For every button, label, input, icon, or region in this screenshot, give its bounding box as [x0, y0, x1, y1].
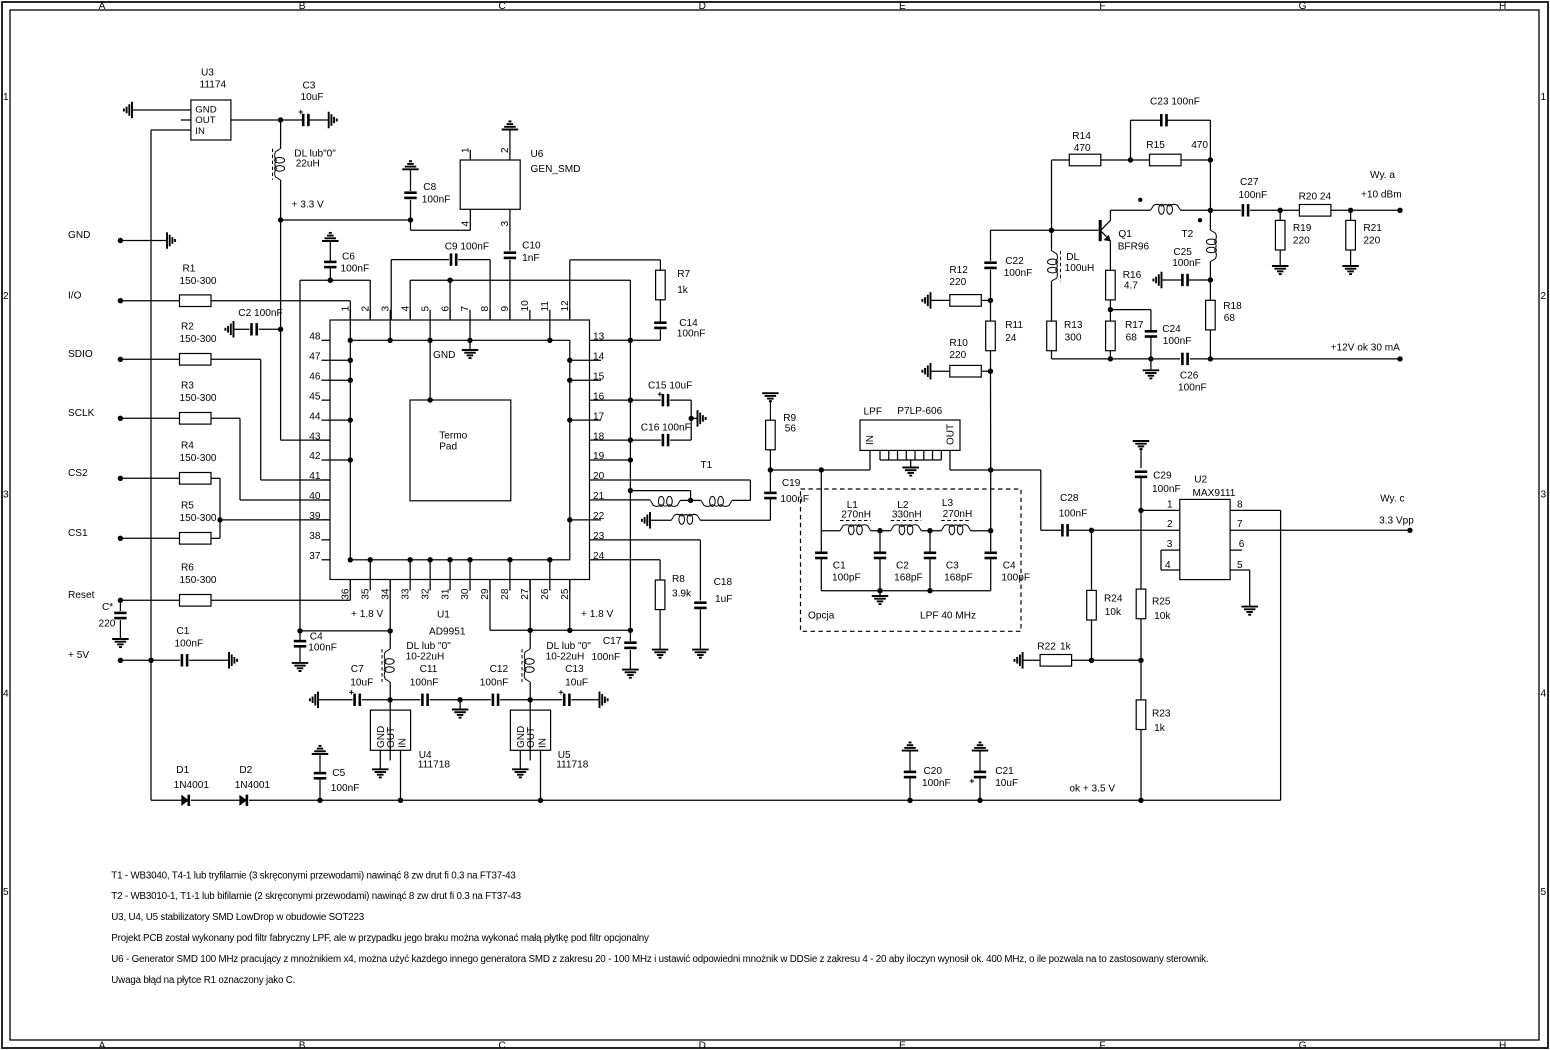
U6 pin 1 stub: [469, 150, 471, 160]
svg-text:F: F: [1099, 1040, 1105, 1050]
svg-text:R10: R10: [949, 338, 968, 349]
svg-text:10: 10: [520, 300, 531, 312]
svg-text:36: 36: [341, 588, 352, 600]
svg-text:C22: C22: [1005, 256, 1024, 267]
svg-text:T2: T2: [1182, 229, 1194, 240]
svg-text:100nF: 100nF: [922, 778, 951, 789]
ground at filter: [872, 595, 889, 597]
resistor R11 24: [986, 321, 996, 351]
U1 pin 29 stub: [489, 580, 491, 591]
svg-text:R11: R11: [1005, 320, 1023, 331]
resistor R10 220: [930, 363, 932, 380]
optional filter dashed box: [801, 489, 1022, 631]
svg-text:C9 100nF: C9 100nF: [445, 242, 489, 253]
inductor DL 22uH vertical: [280, 120, 282, 149]
svg-text:IN: IN: [865, 435, 876, 445]
svg-text:U6: U6: [531, 149, 544, 160]
terminal dot SDIO: [118, 357, 123, 362]
pin 1 riser into ring: [349, 301, 351, 341]
resistor R1 150-300: [120, 300, 179, 302]
resistor R18 68: [1209, 280, 1211, 300]
svg-text:6: 6: [1239, 539, 1245, 550]
svg-text:1k: 1k: [1060, 642, 1072, 653]
inductor DL 100uH: [1051, 230, 1053, 250]
svg-text:Projekt PCB został wykonany po: Projekt PCB został wykonany pod filtr fa…: [111, 933, 649, 944]
svg-text:C28: C28: [1060, 493, 1079, 504]
LPF P7LP-606 body: [860, 420, 960, 450]
junction C4 rail: [297, 628, 302, 633]
svg-text:100uH: 100uH: [1065, 263, 1095, 274]
junction C15/C16 ground: [689, 416, 694, 421]
capacitor C16 100nF: [601, 439, 661, 441]
junction C24 bottom rail: [1148, 356, 1153, 361]
svg-text:A: A: [99, 1040, 106, 1050]
left vertical rail x=300: [299, 280, 301, 631]
svg-text:1: 1: [1541, 92, 1547, 103]
svg-text:IN: IN: [398, 738, 409, 748]
U6 pin 3 wire to C10: [509, 209, 511, 251]
svg-text:10k: 10k: [1154, 611, 1171, 622]
Q1 collector wire to T2: [1110, 209, 1150, 211]
IC U1 AD9951 outline: [330, 320, 590, 580]
svg-text:Pad: Pad: [439, 442, 457, 453]
T2 phasing dot left: [1138, 198, 1142, 202]
svg-text:1: 1: [461, 147, 472, 153]
U1 pin 3 stub: [389, 310, 391, 320]
svg-text:DL: DL: [1066, 252, 1079, 263]
junction C29/U2 pin1/R25: [1138, 508, 1143, 513]
svg-text:IN: IN: [538, 738, 549, 748]
svg-text:C11: C11: [420, 664, 438, 675]
U5 OUT pin line: [529, 700, 531, 761]
terminal dot GND: [118, 238, 123, 243]
svg-text:100nF: 100nF: [677, 329, 706, 340]
svg-text:R24: R24: [1104, 594, 1123, 605]
capacitor C21 10uF: [972, 750, 989, 752]
capacitor C8 100nF: [402, 168, 419, 170]
svg-text:10uF: 10uF: [301, 92, 324, 103]
svg-text:5: 5: [1237, 560, 1243, 571]
U6 pin 2 wire to ground: [509, 130, 511, 161]
svg-text:3: 3: [1541, 490, 1547, 501]
capacitor C4 100pF (filter): [990, 531, 992, 552]
svg-text:4.7: 4.7: [1124, 281, 1138, 292]
ground at C17: [622, 669, 639, 671]
svg-text:168pF: 168pF: [894, 573, 923, 584]
svg-text:+ 1.8 V: + 1.8 V: [581, 609, 614, 620]
svg-text:10k: 10k: [1105, 607, 1122, 618]
svg-text:R25: R25: [1152, 597, 1171, 608]
svg-text:10-22uH: 10-22uH: [406, 652, 445, 663]
svg-text:R3: R3: [181, 381, 194, 392]
IC U2 MAX9111 body: [1180, 499, 1230, 579]
svg-text:U3: U3: [201, 68, 214, 79]
U1 pin 37 stub: [322, 559, 331, 561]
junction base/R14/DL: [1049, 228, 1054, 233]
svg-text:ok + 3.5 V: ok + 3.5 V: [1069, 784, 1115, 795]
svg-text:R9: R9: [783, 413, 796, 424]
svg-text:270nH: 270nH: [841, 510, 871, 521]
U1 pin 36 stub: [349, 580, 351, 591]
svg-text:Termo: Termo: [439, 431, 467, 442]
capacitor C6 100nF: [328, 278, 333, 283]
U1 pin 46 stub: [322, 379, 331, 381]
svg-text:68: 68: [1126, 333, 1138, 344]
U1 pin 20 stub: [590, 479, 602, 481]
capacitor C2 100nF: [234, 328, 250, 330]
U5 IN pin to +5V bus: [540, 750, 542, 800]
U1 pin 2 stub: [369, 310, 371, 320]
svg-text:17: 17: [593, 411, 605, 422]
svg-text:R5: R5: [181, 501, 194, 512]
U4 IN pin to +5V bus: [400, 750, 402, 800]
GND terminal wire: [120, 240, 167, 242]
capacitor C22 100nF: [990, 270, 992, 301]
svg-text:R14: R14: [1072, 131, 1091, 142]
svg-text:330nH: 330nH: [892, 510, 922, 521]
resistor R5 150-300: [120, 537, 179, 539]
pin 33 inner connection: [409, 560, 411, 580]
svg-text:3.9k: 3.9k: [672, 589, 692, 600]
svg-text:GND: GND: [433, 350, 455, 361]
U3 OUT pin wire to node: [231, 119, 281, 121]
svg-text:P7LP-606: P7LP-606: [897, 406, 942, 417]
transformer T2 secondary: [1209, 210, 1211, 230]
wire R3 to chip pin 40: [211, 417, 240, 419]
pin 35 inner connection: [369, 560, 371, 580]
wire R4 down to shared node: [211, 477, 220, 479]
svg-text:OUT: OUT: [945, 424, 956, 445]
U1 pin 8 stub: [489, 310, 491, 320]
svg-text:100nF: 100nF: [1163, 336, 1192, 347]
svg-text:100nF: 100nF: [410, 678, 439, 689]
wire opcja node down to L1: [820, 470, 822, 531]
pin 15 inner connection: [570, 379, 590, 381]
wire DL to +3.3V node: [280, 180, 282, 220]
capacitor C12 100nF: [460, 699, 491, 701]
ground at C18: [692, 649, 709, 651]
transformer T2 primary: [1151, 204, 1181, 210]
svg-text:100nF: 100nF: [422, 195, 451, 206]
svg-text:26: 26: [540, 588, 551, 600]
svg-text:E: E: [899, 1040, 906, 1050]
svg-text:C29: C29: [1153, 471, 1172, 482]
capacitor C11 100nF: [390, 699, 420, 701]
junction R24/R22 node: [1089, 658, 1094, 663]
svg-text:32: 32: [420, 588, 431, 600]
U1 pin 43 stub: [322, 439, 331, 441]
junction R12/R11/C22: [988, 298, 993, 303]
junction +3.3V: [278, 217, 283, 222]
wire R6 to chip pin 36: [211, 599, 350, 601]
junction R18 bottom rail: [1208, 356, 1213, 361]
wire pin 13 to C14: [601, 339, 660, 341]
svg-text:C3: C3: [946, 561, 959, 572]
svg-text:C20: C20: [924, 766, 943, 777]
capacitor C20 100nF: [902, 750, 919, 752]
pin 46 inner connection: [330, 379, 350, 381]
svg-text:100nF: 100nF: [308, 643, 337, 654]
svg-text:B: B: [299, 1040, 306, 1050]
wire pin 20 to T1 primary: [601, 479, 750, 481]
pin 37 inner junction: [348, 557, 353, 562]
diode D1 1N4001: [181, 795, 189, 806]
T1 primary winding right: [691, 499, 701, 501]
junction R25/R23/R22 node: [1138, 658, 1143, 663]
+5V rail wire down to bottom bus: [150, 660, 152, 800]
svg-text:DL lub "0": DL lub "0": [406, 641, 451, 652]
U2 pin 6 stub: [1230, 549, 1242, 551]
wire pin 23 to C18: [601, 539, 700, 541]
U1 pin 38 stub: [322, 539, 331, 541]
junction R9/C19: [768, 467, 773, 472]
resistor R2 150-300: [120, 358, 179, 360]
svg-text:R22: R22: [1037, 642, 1056, 653]
U1 pin 48 stub: [322, 339, 331, 341]
ground at U3 GND pin: [131, 102, 133, 119]
U1 pin 1 stub: [349, 310, 351, 320]
svg-text:OUT: OUT: [195, 115, 215, 126]
pin 26 inner connection: [549, 560, 551, 580]
svg-text:11174: 11174: [200, 80, 227, 91]
ground above U6 pin 2: [502, 129, 519, 131]
U1 pin 45 stub: [322, 399, 331, 401]
svg-text:C3: C3: [303, 81, 316, 92]
U3 OUT left stub: [181, 119, 191, 121]
capacitor C13 10uF: [530, 699, 562, 701]
+3.3V bus above pins 4-12: [409, 280, 411, 320]
terminal dot + 5V: [118, 658, 123, 663]
ground at C2: [233, 321, 235, 338]
U4 OUT pin line: [389, 700, 391, 761]
transistor Q1 BFR96: [1099, 220, 1102, 241]
resistor R15 470: [1131, 159, 1150, 161]
svg-text:Opcja: Opcja: [808, 611, 835, 622]
junction U5 IN bus: [538, 798, 543, 803]
ground above R9: [762, 392, 779, 394]
svg-text:OUT: OUT: [526, 727, 537, 748]
svg-text:111718: 111718: [418, 760, 451, 771]
svg-text:C: C: [499, 1040, 506, 1050]
U1 pin 44 stub: [322, 419, 331, 421]
U1 pin 6 stub: [449, 310, 451, 320]
pin 3 riser to C9: [390, 260, 392, 320]
resistor R19 220: [1279, 210, 1281, 220]
svg-text:C13: C13: [565, 664, 584, 675]
pin 6 riser junction: [449, 280, 451, 320]
svg-text:47: 47: [309, 351, 321, 362]
junction L2/L3/C3: [927, 528, 932, 533]
svg-text:R16: R16: [1123, 270, 1142, 281]
svg-text:1N4001: 1N4001: [174, 780, 210, 791]
U1 pin 21 stub: [590, 499, 602, 501]
svg-text:300: 300: [1065, 333, 1082, 344]
wire LPF OUT down to L3/C4: [990, 470, 992, 531]
U1 pin 34 stub: [389, 580, 391, 591]
svg-text:30: 30: [460, 588, 471, 600]
resistor R8 3.9k: [655, 580, 665, 610]
wire LPF OUT node to C28: [991, 469, 1041, 471]
svg-text:2: 2: [3, 291, 9, 302]
svg-text:C2 100nF: C2 100nF: [238, 308, 282, 319]
LPF ground: [910, 460, 912, 468]
junction U3 out node: [278, 117, 283, 122]
wire R9 node to LPF IN: [770, 469, 870, 471]
svg-text:100nF: 100nF: [1059, 509, 1088, 520]
junction pin 34 rail: [388, 628, 393, 633]
svg-text:G: G: [1299, 1, 1307, 12]
U1 pin 5 stub: [429, 310, 431, 320]
svg-text:+10 dBm: +10 dBm: [1361, 190, 1402, 201]
svg-text:SDIO: SDIO: [68, 349, 93, 360]
svg-text:7: 7: [1237, 519, 1243, 530]
resistor R22 1k: [1022, 652, 1024, 669]
+1.8V right rail: [489, 580, 491, 631]
diode D2 1N4001: [239, 795, 247, 806]
svg-text:14: 14: [593, 351, 605, 362]
resistor R7 1k: [659, 260, 661, 270]
junction R23 bottom bus: [1138, 798, 1143, 803]
LPF pin comb: [879, 450, 881, 460]
svg-text:10uF: 10uF: [350, 678, 373, 689]
svg-text:100nF: 100nF: [480, 678, 509, 689]
capacitor C10 1nF: [504, 251, 516, 254]
pin 7 inner connection: [469, 320, 471, 340]
U1 pin 23 stub: [590, 539, 602, 541]
svg-text:R6: R6: [181, 563, 194, 574]
svg-text:I/O: I/O: [68, 290, 82, 301]
svg-text:H: H: [1499, 1040, 1506, 1050]
pin 44 inner connection: [330, 419, 350, 421]
inductor L3 270nH: [941, 525, 970, 531]
U1 pin 35 stub: [369, 580, 371, 591]
U1 pin 33 stub: [409, 580, 411, 591]
svg-text:150-300: 150-300: [180, 453, 217, 464]
svg-text:+ 1.8 V: + 1.8 V: [351, 609, 384, 620]
ground at amplifier rail: [1150, 359, 1152, 370]
U1 pin 15 stub: [590, 379, 602, 381]
capacitor C4 100nF: [299, 631, 301, 641]
amplifier bottom rail left of C26: [1052, 358, 1181, 360]
+12V terminal dot: [1397, 356, 1402, 361]
capacitor C25 100nF: [1161, 272, 1163, 289]
U1 pin 9 stub: [509, 310, 511, 320]
svg-text:4: 4: [1541, 688, 1547, 699]
svg-text:43: 43: [309, 431, 321, 442]
pin 3 inner connection: [389, 320, 391, 340]
junction R16/R17/C24: [1108, 307, 1113, 312]
ground right of C13: [599, 692, 601, 709]
svg-text:R20 24: R20 24: [1299, 192, 1332, 203]
svg-text:+ 3.3 V: + 3.3 V: [292, 200, 325, 211]
svg-text:D1: D1: [176, 765, 189, 776]
capacitor C* 220 at Reset: [119, 600, 121, 611]
pin 30 inner connection: [469, 560, 471, 580]
svg-text:3: 3: [380, 306, 391, 312]
terminal dot CS2: [118, 476, 123, 481]
resistor R14 470: [1051, 160, 1053, 230]
svg-text:46: 46: [309, 371, 321, 382]
svg-text:C24: C24: [1162, 324, 1181, 335]
junction LPF OUT node: [988, 467, 993, 472]
U1 pin 28 stub: [509, 580, 511, 591]
U1 pin 10 stub: [529, 310, 531, 320]
svg-text:22: 22: [593, 511, 605, 522]
regulator U4 111718 body: [370, 710, 410, 750]
svg-text:100pF: 100pF: [832, 573, 861, 584]
wire R2 to chip pin 41: [211, 358, 261, 360]
svg-text:IN: IN: [195, 126, 205, 137]
svg-text:15: 15: [593, 371, 605, 382]
svg-text:100nF: 100nF: [592, 652, 621, 663]
U4 GND pin to ground: [379, 750, 381, 769]
svg-text:270nH: 270nH: [943, 509, 973, 520]
pin 34 wire to DL coil: [389, 580, 391, 631]
terminal dot CS1: [118, 536, 123, 541]
resistor R12 220: [930, 292, 932, 309]
U1 pin 12 stub: [569, 310, 571, 320]
pin 5 wire to thermal pad: [429, 340, 431, 400]
svg-text:C5: C5: [332, 768, 345, 779]
junction T1 tap bus: [628, 488, 633, 493]
svg-text:BFR96: BFR96: [1118, 242, 1150, 253]
junction +5V rail: [148, 658, 153, 663]
svg-text:220: 220: [949, 277, 966, 288]
capacitor C28 100nF: [1041, 529, 1063, 531]
junction +1.8V right rail at C17: [628, 628, 633, 633]
svg-text:8: 8: [1237, 499, 1243, 510]
svg-text:R4: R4: [181, 441, 194, 452]
Q1 base wire: [991, 229, 1099, 231]
svg-text:39: 39: [309, 511, 321, 522]
ground at R21: [1342, 265, 1359, 267]
junction L1/L2/C2: [877, 528, 882, 533]
svg-text:U2: U2: [1194, 475, 1207, 486]
svg-text:+ 5V: + 5V: [68, 650, 89, 661]
bus corner down to pin 13 node: [629, 280, 631, 340]
svg-text:150-300: 150-300: [180, 334, 217, 345]
svg-text:C16 100nF: C16 100nF: [641, 423, 691, 434]
U1 inner ground ring: [350, 340, 570, 560]
junction DL/C7/C11 node: [388, 697, 393, 702]
svg-text:Q1: Q1: [1118, 229, 1132, 240]
svg-text:2: 2: [1541, 291, 1547, 302]
pin 5 inner connection: [429, 320, 431, 340]
junction DL2/C12/C13 node: [528, 697, 533, 702]
capacitor C26 100nF: [1181, 353, 1184, 365]
svg-text:R21: R21: [1363, 223, 1382, 234]
ground at C15/C16: [697, 410, 699, 427]
rail right of C26 to +12V terminal: [1190, 358, 1400, 360]
svg-text:CS1: CS1: [68, 528, 88, 539]
capacitor C2 168pF (filter): [879, 531, 881, 552]
U1 pin 30 stub: [469, 580, 471, 591]
U6 pin 4 wire to +3.3V: [410, 220, 412, 230]
svg-text:168pF: 168pF: [944, 573, 973, 584]
junction pin 13 bus: [628, 338, 633, 343]
svg-text:C2: C2: [896, 561, 909, 572]
junction C3 bottom: [927, 588, 932, 593]
junction pin 19 bus: [601, 459, 630, 461]
right vertical bus x=630.4: [629, 340, 631, 630]
U1 pin 22 stub: [590, 519, 602, 521]
svg-text:F: F: [1099, 1, 1105, 12]
resistor R23 1k: [1140, 660, 1142, 700]
svg-text:220: 220: [949, 350, 966, 361]
junction C20 bus: [907, 798, 912, 803]
junction R10/R11 node: [988, 369, 993, 374]
svg-text:28: 28: [500, 588, 511, 600]
